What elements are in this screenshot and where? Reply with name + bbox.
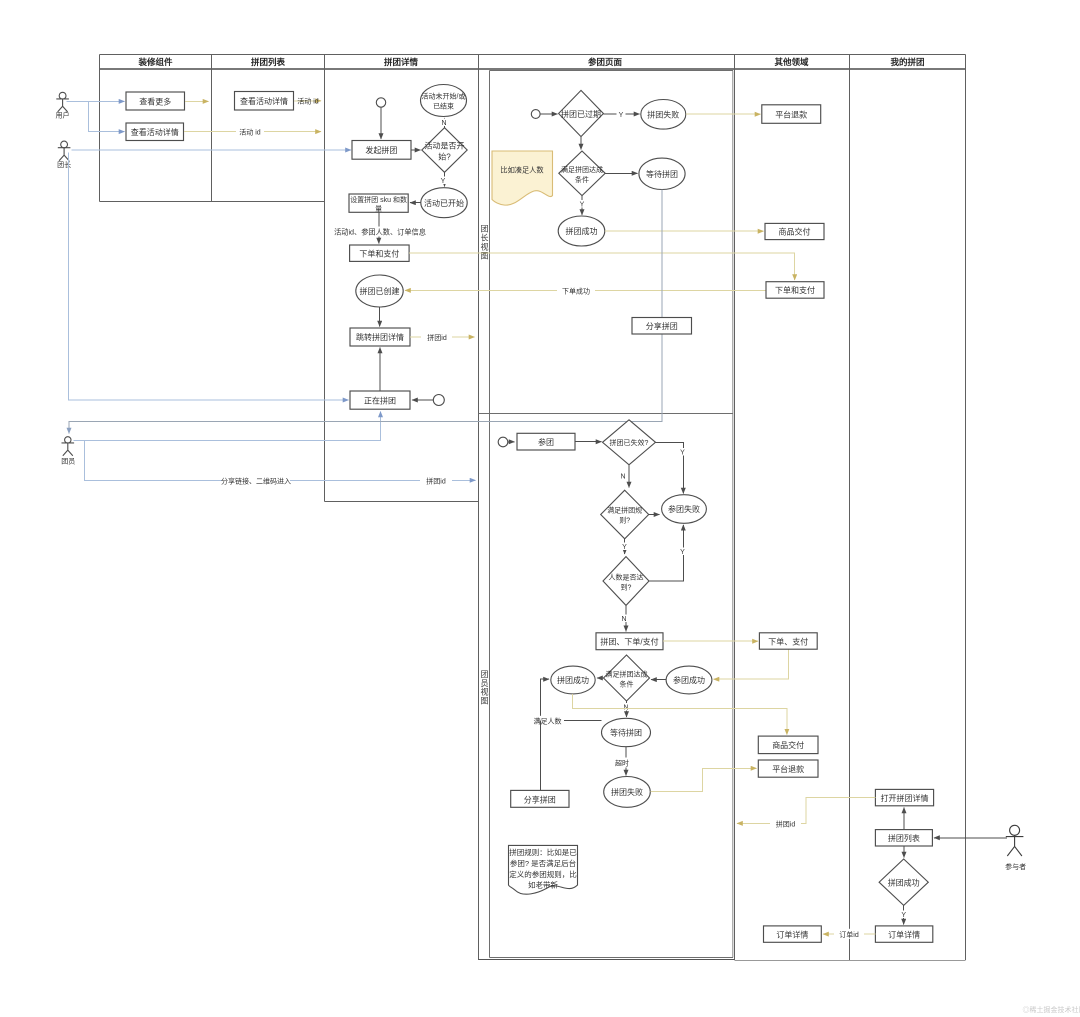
wire 满足拼团规则 to 参团失败 bbox=[649, 514, 660, 516]
wire 活动是否开始 Y to 活动已开始 bbox=[444, 172, 446, 186]
wire 团员 to 正在拼团 bottom (blue) bbox=[74, 412, 381, 441]
svg-text:Y: Y bbox=[901, 912, 906, 919]
wire 设置拼团 to 下单和支付 with label bbox=[378, 212, 380, 243]
svg-text:Y: Y bbox=[441, 178, 446, 185]
wire 等待拼团 满足人数 loop to 拼团成功 bbox=[541, 679, 602, 720]
wire 下单和支付(其他领域) to 拼团已创建 下单成功 (yellow) bbox=[405, 289, 766, 291]
svg-text:发起拼团: 发起拼团 bbox=[365, 145, 397, 155]
svg-text:参与者: 参与者 bbox=[1005, 862, 1026, 871]
wire 拼团成功 to 商品交付 (yellow) bbox=[573, 694, 787, 735]
wire 拼团成功 to 商品交付 (yellow) bbox=[605, 230, 764, 232]
note 比如凑足人数 bbox=[492, 151, 553, 205]
diamond 满足拼团达成条件 (团长视图) bbox=[559, 151, 605, 196]
wire 查看更多 to 查看活动详情 (yellow) bbox=[185, 100, 209, 102]
svg-text:拼团列表: 拼团列表 bbox=[251, 57, 286, 67]
svg-text:下单和支付: 下单和支付 bbox=[359, 248, 399, 258]
box 下单、支付 bbox=[759, 633, 817, 649]
svg-text:条件: 条件 bbox=[575, 175, 589, 184]
node circle right of 正在拼团 bbox=[433, 395, 444, 406]
svg-text:定义的参团规则，比: 定义的参团规则，比 bbox=[509, 869, 577, 879]
wire 人数是否达到 Y up to 参团失败 bbox=[649, 525, 683, 581]
svg-text:参团: 参团 bbox=[538, 437, 554, 447]
wire 满足拼团达成条件 Y to 拼团成功 bbox=[581, 196, 583, 215]
ellipse 等待拼团 (团员视图) bbox=[602, 718, 651, 746]
wire 满足拼团达成条件 N to 等待拼团 bbox=[626, 701, 628, 717]
svg-text:N: N bbox=[620, 474, 625, 481]
inner frame of lane 参团页面 bbox=[479, 71, 734, 958]
diamond 满足拼团达成条件 (团员视图) bbox=[604, 655, 650, 701]
svg-text:参团失败: 参团失败 bbox=[668, 504, 700, 514]
svg-text:到?: 到? bbox=[621, 584, 632, 592]
wire start to 拼团已过期 bbox=[540, 113, 557, 115]
svg-text:满足人数: 满足人数 bbox=[534, 717, 562, 726]
svg-text:参团? 是否满足后台: 参团? 是否满足后台 bbox=[510, 858, 576, 868]
svg-text:拼团已过期: 拼团已过期 bbox=[561, 109, 601, 119]
svg-text:拼团规则：比如是已: 拼团规则：比如是已 bbox=[509, 847, 577, 857]
svg-text:其他领域: 其他领域 bbox=[774, 57, 809, 67]
svg-text:用户: 用户 bbox=[56, 111, 70, 120]
diamond 活动是否开始? bbox=[422, 128, 467, 173]
svg-text:拼团列表: 拼团列表 bbox=[888, 833, 920, 843]
wire 等待拼团 超时 to 拼团失败 bbox=[625, 747, 627, 776]
box 下单和支付 (拼团详情) bbox=[350, 245, 410, 261]
wire 团长 down to 正在拼团 (blue) bbox=[69, 153, 349, 401]
wire 满足拼团达成条件 to 拼团成功 bbox=[597, 677, 604, 679]
svg-text:查看活动详情: 查看活动详情 bbox=[240, 96, 288, 106]
box 查看活动详情 (装修组件) bbox=[126, 123, 184, 141]
box 正在拼团 bbox=[350, 391, 410, 409]
svg-text:比如凑足人数: 比如凑足人数 bbox=[500, 166, 543, 175]
svg-text:设置拼团 sku 和数: 设置拼团 sku 和数 bbox=[350, 195, 407, 204]
wire 等待拼团 loop down to 分享拼团 bbox=[540, 721, 542, 791]
svg-text:订单id: 订单id bbox=[839, 930, 859, 939]
actor 团长 bbox=[57, 141, 71, 169]
actor 用户 bbox=[56, 92, 70, 119]
box 订单详情 (我的拼团) bbox=[875, 926, 932, 942]
diamond 拼团成功 (我的拼团) bbox=[879, 859, 928, 905]
diamond 人数是否达到? bbox=[603, 557, 649, 606]
ellipse 等待拼团 (团长视图) bbox=[639, 158, 685, 189]
svg-text:则?: 则? bbox=[619, 517, 630, 525]
ellipse 拼团已创建 bbox=[356, 275, 403, 307]
svg-text:活动 id: 活动 id bbox=[239, 127, 260, 136]
wire 拼团已创建 to 跳转拼团详情 bbox=[379, 307, 381, 327]
svg-text:满足拼团规: 满足拼团规 bbox=[607, 506, 642, 515]
swimlane frame bbox=[100, 55, 966, 961]
box 发起拼团 bbox=[352, 141, 411, 160]
wire 订单详情 订单id to 订单详情(其他领域) (yellow) bbox=[823, 933, 875, 935]
svg-text:分享拼团: 分享拼团 bbox=[646, 321, 678, 331]
svg-text:满足拼团达成: 满足拼团达成 bbox=[606, 670, 648, 679]
box 拼团、下单/支付 bbox=[596, 633, 663, 650]
wire 团长 to 发起拼团 (blue) bbox=[72, 149, 352, 151]
box 平台退款 (下) bbox=[758, 760, 818, 777]
svg-text:订单详情: 订单详情 bbox=[888, 929, 920, 939]
wire 用户 to 查看活动详情 (blue, branch) bbox=[88, 101, 124, 131]
note 拼团规则 bbox=[509, 845, 578, 894]
wire 参与者 to 拼团列表 bbox=[934, 837, 1007, 839]
ellipse 拼团成功 (团员视图) bbox=[551, 666, 595, 694]
wire 活动已开始 to 设置拼团 bbox=[410, 202, 421, 204]
wire circle to 正在拼团 bbox=[412, 399, 433, 401]
svg-text:拼团失败: 拼团失败 bbox=[611, 787, 643, 797]
box 订单详情 (其他领域) bbox=[764, 926, 822, 942]
svg-text:超时: 超时 bbox=[615, 759, 629, 768]
box 查看活动详情 (拼团列表) bbox=[235, 92, 294, 111]
wire 拼团已过期 to 满足拼团达成条件 bbox=[580, 137, 582, 150]
ellipse 拼团成功 (团长视图) bbox=[558, 216, 605, 246]
svg-text:参团页面: 参团页面 bbox=[588, 57, 623, 67]
svg-text:Y: Y bbox=[680, 450, 685, 457]
svg-text:活动已开始: 活动已开始 bbox=[424, 198, 464, 208]
svg-text:满足拼团达成: 满足拼团达成 bbox=[561, 165, 603, 174]
svg-text:查看活动详情: 查看活动详情 bbox=[131, 127, 179, 137]
box 平台退款 (上) bbox=[762, 105, 821, 124]
wire 查看活动详情(装修组件) 活动id (yellow) bbox=[184, 131, 321, 133]
svg-text:拼团失败: 拼团失败 bbox=[647, 110, 679, 120]
wire 拼团已失效 N to 满足拼团规则 bbox=[628, 465, 630, 488]
wire 满足拼团规则 Y to 人数是否达到 bbox=[624, 539, 626, 554]
box 下单和支付 (其他领域) bbox=[766, 282, 824, 299]
wire 下单和支付(拼团详情) to 下单和支付(其他领域) (yellow) bbox=[409, 253, 795, 280]
svg-text:Y: Y bbox=[680, 549, 685, 556]
svg-text:N: N bbox=[623, 705, 628, 712]
svg-text:订单详情: 订单详情 bbox=[776, 929, 808, 939]
svg-text:Y: Y bbox=[622, 544, 627, 551]
svg-text:拼团成功: 拼团成功 bbox=[566, 226, 598, 236]
svg-text:拼团、下单/支付: 拼团、下单/支付 bbox=[600, 637, 658, 647]
actor 团员 bbox=[61, 437, 75, 466]
wire 拼团列表 to 打开拼团详情 bbox=[903, 808, 905, 830]
box 打开拼团详情 bbox=[875, 789, 933, 805]
box 跳转拼团详情 bbox=[350, 328, 410, 346]
svg-text:量: 量 bbox=[375, 205, 382, 213]
svg-text:下单和支付: 下单和支付 bbox=[775, 285, 815, 295]
svg-text:N: N bbox=[621, 616, 626, 623]
wire 团员 share-link entry 分享链接、二维码进入 拼团id (blue) bbox=[85, 441, 476, 481]
svg-text:拼团已失效?: 拼团已失效? bbox=[610, 438, 649, 447]
svg-text:参团成功: 参团成功 bbox=[673, 675, 705, 685]
svg-text:N: N bbox=[441, 120, 446, 127]
svg-text:活动 id: 活动 id bbox=[297, 97, 318, 106]
box 拼团列表 bbox=[875, 830, 932, 846]
svg-text:拼团成功: 拼团成功 bbox=[888, 877, 920, 887]
svg-text:等待拼团: 等待拼团 bbox=[610, 728, 642, 738]
wire 活动是否开始 N to 活动未开始 bbox=[443, 118, 445, 128]
svg-text:查看更多: 查看更多 bbox=[139, 96, 171, 106]
svg-text:平台退款: 平台退款 bbox=[772, 764, 804, 774]
svg-text:下单、支付: 下单、支付 bbox=[768, 636, 808, 646]
svg-text:Y: Y bbox=[619, 112, 624, 119]
svg-text:活动是否开: 活动是否开 bbox=[425, 141, 465, 151]
svg-text:团长视图: 团长视图 bbox=[481, 225, 489, 261]
diamond 满足拼团规则? bbox=[601, 490, 649, 539]
box 商品交付 (下) bbox=[758, 736, 818, 754]
wire 拼团下单支付 to 下单、支付 (yellow) bbox=[663, 640, 758, 642]
svg-text:活动未开始/或: 活动未开始/或 bbox=[422, 92, 466, 101]
svg-text:等待拼团: 等待拼团 bbox=[646, 169, 678, 179]
svg-text:平台退款: 平台退款 bbox=[775, 109, 807, 119]
svg-text:始?: 始? bbox=[438, 152, 451, 162]
svg-text:活动id、参团人数、订单信息: 活动id、参团人数、订单信息 bbox=[334, 227, 426, 236]
wire 拼团失败 to 平台退款 (yellow) bbox=[686, 113, 761, 115]
node start circle 团长视图 bbox=[531, 110, 540, 119]
svg-text:已结束: 已结束 bbox=[433, 102, 454, 111]
node start circle 团员视图 bbox=[498, 437, 508, 447]
svg-text:Y: Y bbox=[580, 202, 585, 209]
box 参团 bbox=[517, 433, 575, 450]
svg-text:拼团已创建: 拼团已创建 bbox=[360, 286, 400, 296]
wire start to 发起拼团 bbox=[380, 107, 382, 139]
wire 拼团已失效 Y to 参团失败 bbox=[656, 442, 684, 493]
wire 跳转拼团详情 拼团id out (yellow) bbox=[410, 336, 475, 338]
wire 拼团成功 Y to 订单详情 bbox=[903, 905, 905, 924]
ellipse 参团失败 bbox=[662, 495, 707, 524]
ellipse 参团成功 bbox=[666, 666, 712, 694]
svg-text:商品交付: 商品交付 bbox=[772, 740, 804, 750]
actor 参与者 bbox=[1005, 825, 1026, 871]
ellipse 活动未开始/或已结束 bbox=[421, 85, 467, 117]
svg-text:拼团id: 拼团id bbox=[776, 819, 796, 828]
svg-text:商品交付: 商品交付 bbox=[779, 227, 811, 237]
wire 拼团列表 to 拼团成功 diamond bbox=[903, 846, 905, 858]
svg-text:拼团成功: 拼团成功 bbox=[557, 675, 589, 685]
wire 等待拼团 via 分享拼团 to 团员 (gray) bbox=[69, 190, 662, 434]
svg-text:团员: 团员 bbox=[61, 457, 75, 465]
wire 发起拼团 to 活动是否开始 bbox=[411, 149, 421, 151]
wire 用户 to 查看更多 (blue) bbox=[67, 100, 125, 102]
svg-text:拼团id: 拼团id bbox=[426, 476, 446, 485]
wire 拼团已过期 Y to 拼团失败 bbox=[603, 113, 639, 115]
box 商品交付 (上) bbox=[765, 223, 824, 239]
svg-text:◎稀土掘金技术社区: ◎稀土掘金技术社区 bbox=[1023, 1005, 1080, 1014]
diamond 拼团已过期 bbox=[559, 90, 604, 136]
svg-text:如老带新: 如老带新 bbox=[528, 880, 558, 890]
wire start to 参团 bbox=[508, 441, 515, 443]
svg-text:分享拼团: 分享拼团 bbox=[524, 794, 556, 804]
svg-text:人数是否达: 人数是否达 bbox=[609, 573, 644, 582]
svg-text:团员视图: 团员视图 bbox=[481, 670, 489, 705]
box 查看更多 bbox=[126, 92, 185, 110]
svg-text:装修组件: 装修组件 bbox=[137, 57, 173, 67]
ellipse 活动已开始 bbox=[421, 188, 467, 218]
svg-text:跳转拼团详情: 跳转拼团详情 bbox=[356, 332, 404, 342]
wire 人数是否达到 N to 拼团下单支付 bbox=[625, 605, 627, 631]
ellipse 拼团失败 (团长视图) bbox=[641, 100, 686, 130]
svg-text:条件: 条件 bbox=[620, 680, 634, 689]
box 分享拼团 (团员视图) bbox=[511, 790, 569, 807]
svg-text:我的拼团: 我的拼团 bbox=[890, 57, 924, 67]
wire 满足拼团达成条件 to 等待拼团 bbox=[605, 172, 637, 174]
wire 查看活动详情 活动id out (yellow) bbox=[294, 100, 321, 102]
svg-text:拼团id: 拼团id bbox=[427, 333, 447, 342]
box 分享拼团 (团长视图) bbox=[632, 318, 692, 335]
svg-text:分享链接、二维码进入: 分享链接、二维码进入 bbox=[221, 476, 291, 485]
svg-text:正在拼团: 正在拼团 bbox=[364, 395, 396, 405]
wire 参团成功 to 满足拼团达成条件 bbox=[651, 679, 666, 681]
node start circle 拼团详情 bbox=[376, 98, 385, 107]
svg-text:打开拼团详情: 打开拼团详情 bbox=[881, 793, 929, 803]
svg-text:下单成功: 下单成功 bbox=[562, 287, 590, 296]
svg-text:拼团详情: 拼团详情 bbox=[384, 57, 419, 67]
wire 正在拼团 to 跳转拼团详情 bbox=[379, 348, 381, 392]
wire 参团 to 拼团已失效 bbox=[575, 441, 602, 443]
wire 打开拼团详情 拼团id out (yellow) bbox=[737, 798, 875, 824]
ellipse 拼团失败 (团员视图) bbox=[604, 777, 651, 808]
wire 拼团失败 to 平台退款 (yellow) bbox=[650, 768, 756, 791]
box 设置拼团 sku 和数量 bbox=[349, 194, 408, 213]
wire 下单、支付 to 参团成功 (yellow) bbox=[714, 649, 789, 679]
diamond 拼团已失效? bbox=[603, 420, 656, 465]
